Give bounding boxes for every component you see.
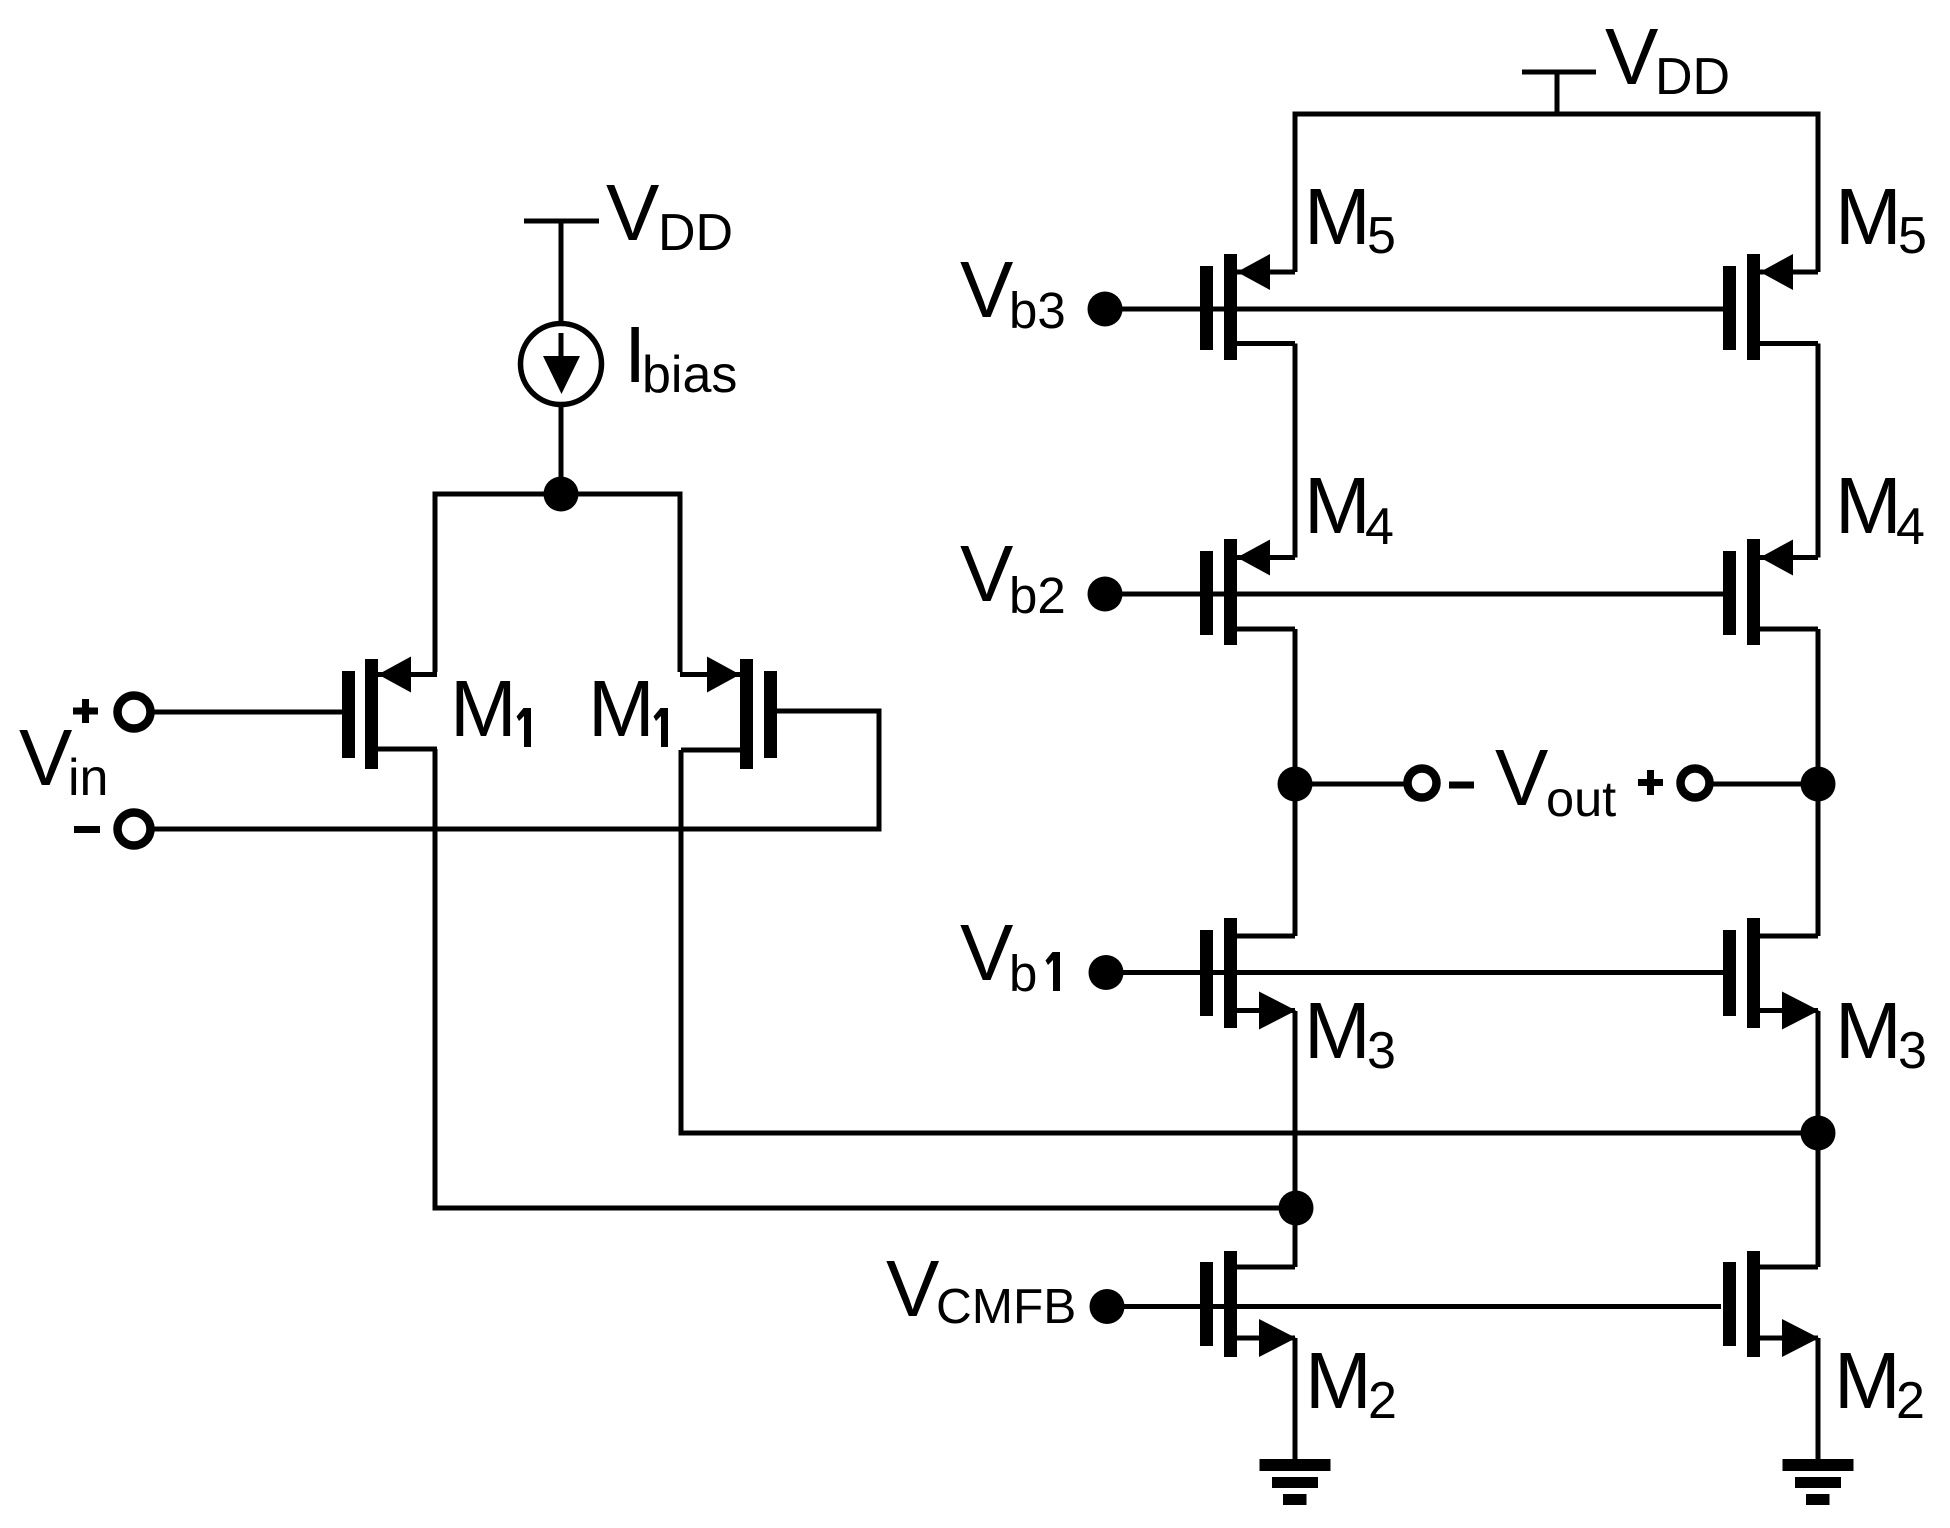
port Vin- terminal — [118, 813, 151, 846]
node Vb2 terminal dot — [1088, 577, 1123, 612]
svg-text:M: M — [1835, 461, 1902, 550]
port Vout- terminal — [1408, 769, 1437, 798]
node VCMFB terminal dot — [1090, 1289, 1125, 1324]
wire left branch vertical segments — [1293, 114, 1298, 1459]
ground symbol (left) — [1260, 1459, 1331, 1505]
svg-text:4: 4 — [1365, 498, 1394, 556]
transistor M1 (right PMOS, mirrored) — [680, 657, 777, 770]
svg-text:CMFB: CMFB — [936, 1279, 1076, 1334]
transistor M3 (right NMOS) — [1723, 918, 1819, 1030]
node Vout- junction dot — [1278, 767, 1313, 802]
svg-text:2: 2 — [1896, 1372, 1925, 1430]
label Vb1 — [960, 908, 1060, 1002]
label Vb2 — [960, 529, 1066, 624]
svg-text:M: M — [1304, 172, 1371, 261]
label M2 (left) — [1305, 1336, 1397, 1430]
svg-text:b3: b3 — [1009, 282, 1066, 339]
current source Ibias — [521, 324, 602, 405]
svg-text:3: 3 — [1898, 1022, 1927, 1080]
port Vin+ terminal — [118, 696, 151, 729]
svg-text:M: M — [1305, 1336, 1372, 1425]
label M1 (right) — [588, 664, 668, 753]
svg-text:2: 2 — [1368, 1372, 1397, 1430]
transistor M5 (right PMOS) — [1723, 254, 1818, 360]
transistor M2 (right NMOS tail) — [1723, 1251, 1819, 1357]
label M1 (left) — [450, 664, 531, 753]
wire right branch vertical segments — [1816, 114, 1821, 1459]
node Vb3 terminal dot — [1088, 292, 1123, 327]
svg-text:V: V — [960, 529, 1014, 618]
svg-text:5: 5 — [1367, 207, 1396, 265]
label - (Vout minus) — [1449, 782, 1474, 789]
transistor M4 (left PMOS cascode) — [1200, 539, 1295, 645]
transistor M3 (left NMOS cascode) — [1200, 918, 1296, 1030]
svg-text:V: V — [886, 1244, 940, 1333]
svg-text:M: M — [1304, 461, 1371, 550]
svg-text:4: 4 — [1896, 498, 1925, 556]
wire Vout- stub — [1295, 782, 1407, 787]
svg-text:b: b — [1009, 945, 1037, 1002]
label M3 (left) — [1304, 986, 1396, 1080]
port Vout+ terminal — [1681, 769, 1710, 798]
svg-text:DD: DD — [1655, 48, 1730, 106]
wire Vb2 gate line — [1105, 592, 1723, 597]
label M4 (left) — [1304, 461, 1394, 556]
wire left M1 drain to left cascode node — [435, 749, 1296, 1208]
svg-text:3: 3 — [1367, 1022, 1396, 1080]
svg-text:M: M — [1835, 172, 1902, 261]
transistor M2 (left NMOS tail) — [1200, 1251, 1296, 1357]
label Vb3 — [960, 245, 1066, 339]
power VDD symbol (right) — [1522, 72, 1596, 114]
label VDD (right) — [1605, 12, 1730, 106]
wire right M1 drain to right cascode node — [681, 750, 1818, 1133]
svg-text:M: M — [450, 664, 517, 753]
wire Ibias to tail node — [559, 404, 564, 496]
label Vin — [19, 713, 108, 807]
node left cascode junction dot — [1279, 1191, 1314, 1226]
transistor M1 (left PMOS) — [342, 657, 437, 770]
svg-text:M: M — [1834, 1336, 1901, 1425]
label + (Vout plus) — [1638, 770, 1663, 795]
ground symbol (right) — [1783, 1459, 1854, 1505]
label - (Vin minus) — [74, 826, 100, 833]
svg-text:V: V — [960, 245, 1014, 334]
svg-text:V: V — [1605, 12, 1659, 101]
svg-text:M: M — [588, 664, 655, 753]
wire Vb3 gate line — [1105, 307, 1723, 312]
label M4 (right) — [1835, 461, 1925, 556]
transistor M5 (left PMOS cascode) — [1200, 254, 1295, 360]
svg-text:V: V — [19, 713, 73, 802]
label + (Vin plus) — [73, 699, 98, 723]
svg-text:bias: bias — [642, 346, 737, 404]
svg-text:5: 5 — [1898, 207, 1927, 265]
svg-text:V: V — [960, 908, 1014, 997]
svg-text:DD: DD — [658, 204, 733, 262]
svg-text:V: V — [1495, 733, 1549, 822]
label M5 (left) — [1304, 172, 1396, 265]
wire tail bus to M1 sources — [435, 494, 680, 672]
wire VCMFB gate line — [1107, 1304, 1721, 1309]
node right cascode junction dot — [1801, 1116, 1836, 1151]
label Vout — [1495, 733, 1616, 827]
svg-text:b2: b2 — [1009, 567, 1066, 624]
node tail junction dot — [544, 477, 579, 512]
svg-text:out: out — [1546, 770, 1616, 827]
node Vout+ junction dot — [1801, 767, 1836, 802]
svg-text:in: in — [68, 749, 108, 807]
svg-text:M: M — [1304, 986, 1371, 1075]
label M3 (right) — [1835, 986, 1927, 1080]
label Ibias — [624, 310, 737, 404]
label M2 (right) — [1834, 1336, 1925, 1430]
transistor M4 (right PMOS) — [1723, 539, 1818, 645]
svg-text:M: M — [1835, 986, 1902, 1075]
wire top VDD rail — [1293, 112, 1821, 117]
label M5 (right) — [1835, 172, 1927, 265]
label VDD (left) — [606, 168, 733, 262]
wire Vb1 gate line — [1106, 970, 1723, 975]
wire Vin- to right M1 gate — [150, 711, 879, 829]
svg-text:V: V — [606, 168, 660, 257]
wire Vout+ stub — [1706, 782, 1818, 787]
label VCMFB — [886, 1244, 1076, 1334]
wire Vin+ to M1 gate — [150, 710, 342, 715]
power VDD symbol (left) — [524, 221, 599, 324]
node Vb1 terminal dot — [1089, 955, 1124, 990]
